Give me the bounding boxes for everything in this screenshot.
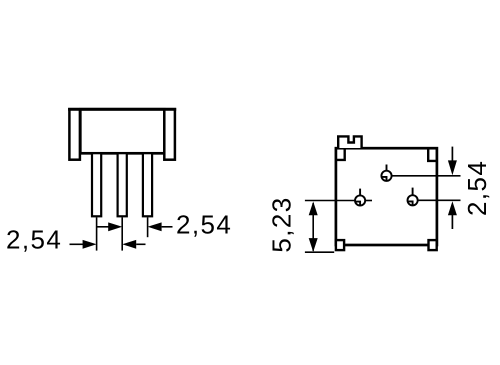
pin 2 center extension line	[121, 217, 123, 250]
circle A right line to extension	[392, 175, 461, 177]
dimension 2,54 right: lower arrow pointing up	[448, 201, 457, 229]
dimension 5,23 vertical double arrow	[309, 202, 318, 252]
bottom view: bottom-right corner standoff	[429, 240, 437, 250]
dimension row pin2-pin3: right arrow tail	[162, 226, 173, 228]
side view: top edge line	[68, 108, 176, 111]
bottom view: top-right corner standoff	[428, 149, 437, 161]
extension line at middle pin row (5,23 top / to circle B)	[305, 200, 355, 202]
dimension 2,54 right: upper arrow pointing down	[448, 147, 457, 176]
adjustment pin circle B (middle left)	[355, 189, 365, 206]
side view: left mounting tab	[69, 109, 80, 159]
dimension row pin1-pin2: arrowhead pointing right at pin1 line	[83, 240, 97, 249]
dimension row pin1-pin2: arrowhead pointing left at pin2 line	[122, 240, 136, 249]
circle C right line to extension	[418, 199, 461, 201]
pin 3 center extension line	[147, 217, 149, 237]
bottom view: body outline	[336, 148, 437, 245]
dimension row pin1-pin2: left arrow tail	[70, 243, 84, 245]
adjustment pin circle A (top middle)	[381, 165, 391, 181]
bottom view: top-left corner standoff	[336, 149, 345, 160]
side view: right mounting tab	[164, 109, 175, 159]
dimension row pin1-pin2: right arrow tail	[136, 243, 145, 245]
svg-text:2,54: 2,54	[176, 210, 232, 240]
pin 1 center extension line	[96, 217, 98, 250]
dimension row pin2-pin3: right arrowhead pointing left at pin3 line	[148, 222, 162, 231]
circle B short right line	[365, 200, 372, 202]
bottom view: bottom-left corner standoff	[336, 240, 344, 250]
svg-text:2,54: 2,54	[462, 160, 492, 216]
dimension row pin2-pin3: left arrow tail	[97, 226, 109, 228]
side view: body outline	[80, 109, 164, 153]
pin 3	[143, 153, 152, 216]
pin 2	[118, 153, 127, 216]
adjustment pin circle C (middle right)	[408, 188, 418, 206]
pin 1	[92, 153, 101, 216]
svg-text:2,54: 2,54	[6, 224, 62, 254]
extension line at bottom of standoffs (5,23 bottom)	[305, 251, 334, 253]
bottom view: index notch on top edge	[338, 136, 361, 148]
svg-text:5,23: 5,23	[266, 196, 296, 252]
dimension row pin2-pin3: left arrowhead pointing right at pin2 line	[108, 222, 122, 231]
